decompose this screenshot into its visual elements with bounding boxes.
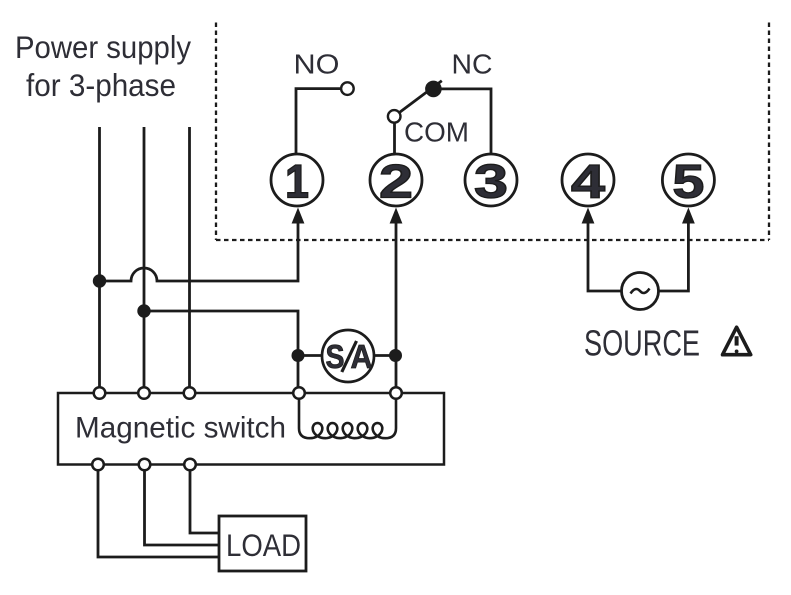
coil of magnetic switch (299, 396, 310, 438)
wire: terminal 5 down to source (659, 220, 688, 291)
svg-text:5: 5 (672, 155, 704, 208)
wire: switch output 3 to LOAD (190, 470, 219, 533)
svg-text:Magnetic switch: Magnetic switch (75, 412, 286, 445)
wire: terminal 2 down to magnetic switch (395, 220, 398, 393)
junction dot on L1 (93, 274, 106, 287)
COM contact open circle (388, 110, 401, 123)
wire: switch output 1 to LOAD (98, 470, 219, 557)
wire: L1 to terminal 1 with hop over L2 (100, 220, 299, 281)
svg-text:2: 2 (379, 155, 413, 208)
svg-text:1: 1 (285, 155, 309, 208)
wire: phase line L3 (188, 127, 191, 393)
svg-text:NC: NC (452, 49, 493, 80)
arrow into terminal 2 (390, 208, 403, 224)
relay lever from COM to NC (399, 81, 442, 113)
S/A unit circle (322, 330, 374, 382)
svg-text:3: 3 (474, 155, 508, 208)
wire: phase line L1 (98, 127, 101, 393)
junction dot left of S/A (292, 349, 305, 362)
switch terminal coil A2 (390, 387, 402, 399)
label: Power supply for 3-phase (15, 29, 191, 103)
svg-text:NO: NO (294, 49, 340, 80)
AC source symbol (622, 273, 659, 310)
dashed panel border left side (215, 23, 217, 241)
svg-text:Power supply: Power supply (15, 29, 191, 65)
svg-text:for 3-phase: for 3-phase (26, 67, 176, 103)
arrow into terminal 4 (582, 208, 595, 224)
svg-text:4: 4 (571, 155, 605, 208)
magnetic switch box (58, 393, 444, 465)
dashed panel border right side (768, 23, 770, 241)
arrow into terminal 5 (682, 208, 695, 224)
switch terminal top 3 (184, 387, 196, 399)
switch terminal top 2 (138, 387, 150, 399)
NO contact open circle (341, 82, 354, 95)
wire: S/A left stub (298, 354, 322, 357)
NC contact dot (425, 81, 442, 98)
wire: S/A right stub (374, 354, 396, 357)
wire: L2 to S/A and magnetic switch (144, 311, 298, 393)
terminal 1 (271, 154, 323, 208)
wire: terminal 4 down to source (588, 220, 621, 291)
wire: terminal 1 to NO contact (296, 89, 341, 154)
switch terminal coil A1 (293, 387, 305, 399)
switch terminal top 1 (94, 387, 106, 399)
dashed panel border bottom side (216, 239, 769, 241)
warning triangle (723, 327, 751, 355)
terminal 2 (370, 154, 422, 208)
wire: switch output 2 to LOAD (145, 470, 220, 545)
svg-text:SOURCE: SOURCE (584, 323, 700, 364)
terminal 3 (465, 154, 517, 208)
switch terminal bottom 3 (184, 459, 196, 471)
switch terminal bottom 2 (139, 459, 151, 471)
terminal 5 (662, 154, 714, 208)
switch terminal bottom 1 (92, 459, 104, 471)
wire: phase line L2 (143, 127, 146, 393)
svg-text:COM: COM (404, 117, 469, 148)
svg-text:A: A (351, 338, 373, 375)
svg-text:LOAD: LOAD (226, 527, 301, 563)
junction dot on L2 (137, 304, 150, 317)
LOAD box (219, 516, 306, 571)
junction dot right of S/A (389, 349, 402, 362)
arrow into terminal 1 (292, 208, 305, 224)
terminal 4 (562, 154, 614, 208)
wire: NC dot to terminal 3 (433, 89, 491, 154)
wire: terminal 2 up to COM contact (393, 123, 396, 154)
